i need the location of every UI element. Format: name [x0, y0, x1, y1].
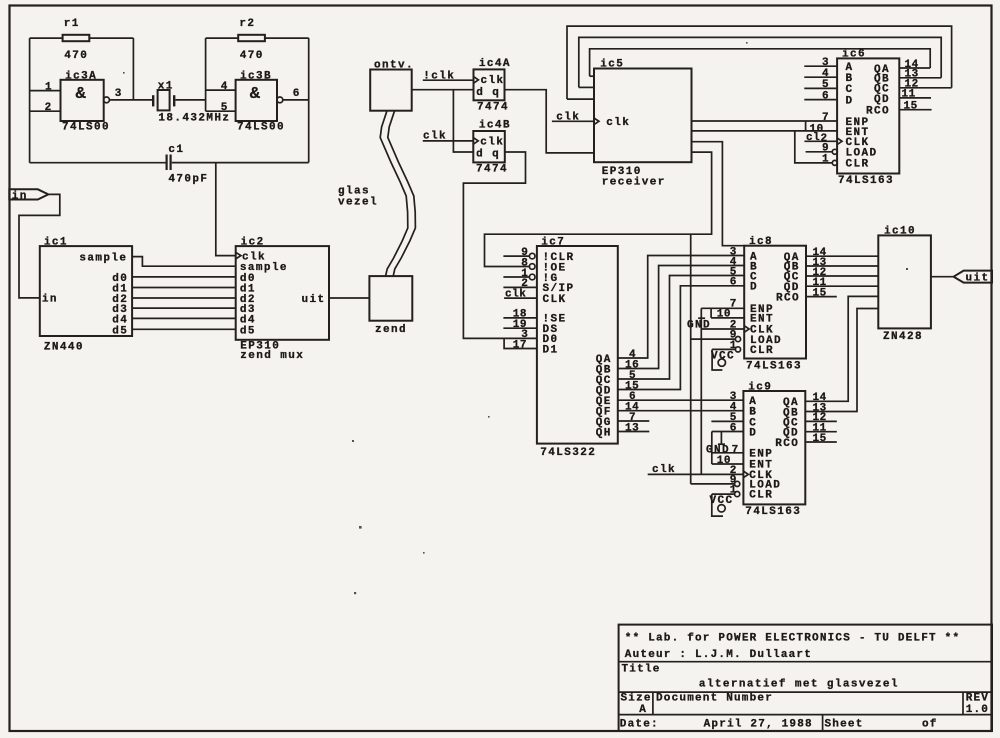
- svg-text:17: 17: [513, 339, 527, 351]
- wire loop stub C into ic5: [567, 98, 594, 100]
- svg-text:5: 5: [221, 102, 228, 114]
- svg-text:7474: 7474: [476, 163, 508, 175]
- wire ic7 QD to ic8 D: [618, 286, 744, 390]
- svg-text:CLR: CLR: [846, 159, 870, 171]
- wire ic7 QG stub: [618, 420, 650, 422]
- wire ic7 QB to ic8 B: [618, 266, 744, 369]
- wire ic5 to ic7 !OE: [485, 152, 712, 266]
- svg-text:in: in: [12, 191, 28, 203]
- wire ic8 QA to ic10: [806, 255, 878, 257]
- svg-text:C: C: [846, 84, 854, 96]
- ic6 CLR bubble: [832, 160, 837, 165]
- wire ic9 LOAD stub: [691, 483, 735, 485]
- wire osc right vertical: [308, 38, 310, 162]
- wire ic9 QD stub: [805, 431, 837, 433]
- svg-text:ic3A: ic3A: [65, 70, 97, 82]
- flip-flop ic4A 7474: [474, 69, 505, 100]
- wire ic9 D-ENP-ENT bracket: [711, 432, 713, 465]
- svg-text:ic10: ic10: [884, 226, 916, 238]
- capacitor C1: [167, 155, 171, 171]
- wire r1 left: [30, 37, 63, 39]
- wire !clk into ic4A: [423, 79, 474, 81]
- wire ic7 QE to ic9 A: [618, 399, 744, 401]
- svg-text:ic2: ic2: [241, 237, 265, 249]
- wire ic6 CLK: [804, 140, 837, 142]
- DAC ic10 ZN428: [878, 235, 931, 328]
- wire ic9 ENP: [712, 452, 744, 454]
- svg-text:2: 2: [45, 102, 52, 114]
- flip-flop ic4B 7474: [473, 131, 505, 162]
- svg-text:15: 15: [813, 433, 827, 445]
- wire ic8 CLK: [701, 328, 744, 330]
- resistor R1: [63, 35, 90, 41]
- wire ic3A output to r1 vertical: [132, 38, 134, 100]
- wire ic8 ENP-ENT bracket: [710, 308, 712, 318]
- svg-text:ic1: ic1: [44, 237, 68, 249]
- wire osc left vertical: [29, 38, 31, 163]
- wire clk to ic9 CLK: [648, 473, 744, 475]
- mux ic2 EP310: [236, 246, 329, 340]
- svg-text:74LS00: 74LS00: [62, 121, 110, 133]
- svg-text:6: 6: [730, 422, 737, 434]
- fiber receiver box ontv.: [370, 70, 412, 111]
- wire ic6 QB stub: [899, 77, 941, 79]
- svg-text:c1: c1: [168, 144, 184, 156]
- wire ic7 !G stub: [503, 276, 529, 278]
- ic3A output bubble: [104, 97, 110, 103]
- svg-text:470: 470: [64, 50, 88, 62]
- svg-text:Size: Size: [621, 692, 652, 704]
- svg-text:QH: QH: [596, 427, 612, 439]
- resistor R2: [238, 35, 265, 41]
- svg-text:ENP: ENP: [749, 448, 773, 460]
- wire d2: [132, 297, 236, 299]
- svg-text:74LS163: 74LS163: [745, 506, 801, 518]
- shift register ic7 74LS322: [537, 246, 618, 444]
- power symbol VCC (ic9): [710, 494, 734, 516]
- svg-text:d: d: [476, 87, 484, 99]
- wire ic8 QB to ic10: [806, 265, 878, 267]
- svg-text:Title: Title: [622, 664, 661, 676]
- wire ic8 LOAD stub: [691, 338, 736, 340]
- wire d0: [132, 276, 236, 278]
- wire c1 junction down to ic2 clk: [216, 163, 236, 256]
- ground symbol GND (ic9): [706, 432, 730, 457]
- svg-text:d: d: [476, 148, 484, 160]
- wire crystal to ic3B inputs: [175, 99, 205, 101]
- svg-text:ic4A: ic4A: [479, 58, 511, 70]
- svg-text:receiver: receiver: [602, 176, 666, 188]
- nand gate ic3A: [61, 80, 104, 121]
- svg-text:r1: r1: [64, 18, 80, 30]
- svg-text:470pF: 470pF: [168, 173, 208, 185]
- wire d4: [132, 317, 236, 319]
- counter ic8 74LS163: [744, 246, 806, 359]
- svg-text:74LS322: 74LS322: [540, 447, 596, 459]
- wire ic7 QA to ic8 A: [618, 256, 744, 359]
- wire c1 right: [172, 162, 309, 164]
- wire feedback loop middle QB to ic5: [579, 37, 941, 87]
- svg-text:13: 13: [625, 422, 639, 434]
- receiver ic5 EP310: [594, 69, 692, 163]
- wire ic9 D stub: [712, 431, 744, 433]
- title block frame: [619, 625, 992, 731]
- svg-text:in: in: [42, 294, 58, 306]
- wire ic7 CLK: [504, 297, 537, 299]
- connector UIT: [954, 271, 992, 285]
- wire ic6 C stub: [804, 87, 837, 89]
- wire ic6 A stub: [804, 65, 837, 67]
- svg-text:4: 4: [221, 81, 228, 93]
- svg-text:q: q: [492, 87, 500, 99]
- wire ic7 QH stub: [618, 431, 650, 433]
- svg-text:zend mux: zend mux: [240, 350, 304, 362]
- wire ic6 QC stub: [899, 87, 951, 89]
- svg-text:ic8: ic8: [749, 236, 773, 248]
- ic3B output bubble: [277, 97, 283, 103]
- wire ic7 S/IP stub: [503, 286, 537, 288]
- wire clk into ic4B: [423, 140, 474, 142]
- pin 5 wire ic3B: [206, 110, 236, 112]
- wire ic9 C stub: [711, 420, 743, 422]
- svg-text:D: D: [749, 427, 757, 439]
- svg-text:sample: sample: [79, 253, 127, 265]
- svg-text:ic7: ic7: [541, 236, 565, 248]
- ic9 CLR bubble: [735, 492, 740, 497]
- wire clk into ic5: [552, 120, 594, 122]
- wire load net vertical ic5/ic7 to ic9 LOAD: [690, 234, 692, 484]
- wire ic2 uit to zend box: [329, 297, 369, 299]
- svg-text:1: 1: [45, 81, 52, 93]
- wire ic8 QD to ic10: [806, 285, 878, 287]
- svg-text:6: 6: [822, 90, 829, 102]
- wire ic5 to ic6 ENP: [692, 120, 838, 122]
- svg-text:ic4B: ic4B: [479, 120, 511, 132]
- wire d3: [132, 307, 236, 309]
- wire ic9 CLR stub: [712, 493, 735, 495]
- svg-text:CLR: CLR: [750, 345, 774, 357]
- svg-text:clk: clk: [606, 117, 630, 129]
- wire ic8 ENP: [701, 307, 744, 309]
- svg-text:zend: zend: [375, 324, 407, 336]
- wire ontv to ic4A d: [412, 89, 474, 91]
- svg-text:VCC: VCC: [711, 350, 735, 362]
- svg-text:5: 5: [822, 79, 829, 91]
- wire d1: [132, 287, 236, 289]
- svg-text:Document Number: Document Number: [656, 692, 773, 704]
- svg-text:Sheet: Sheet: [825, 719, 864, 731]
- wire ic7 !CLR stub: [503, 255, 529, 257]
- wire c1 left: [30, 162, 166, 164]
- svg-text:r2: r2: [239, 18, 255, 30]
- wire ic9 QA to ic10: [805, 296, 878, 401]
- svg-text:RCO: RCO: [866, 106, 890, 118]
- ground symbol GND (ic8): [687, 318, 711, 331]
- svg-text:74LS163: 74LS163: [746, 360, 802, 372]
- svg-text:RCO: RCO: [775, 438, 799, 450]
- svg-text:74LS163: 74LS163: [838, 175, 894, 187]
- wire ic7 D0-D1 bracket: [504, 338, 537, 348]
- wire r2 left: [206, 37, 239, 39]
- counter ic6 74LS163: [837, 58, 899, 173]
- counter ic9 74LS163: [743, 391, 805, 504]
- svg-text:4: 4: [822, 68, 829, 80]
- svg-text:7: 7: [732, 444, 739, 456]
- ic7 !CLR bubble: [529, 253, 535, 259]
- svg-text:D: D: [846, 95, 854, 107]
- wire ic4B q to ic7 D0: [463, 152, 537, 338]
- svg-text:7: 7: [822, 112, 829, 124]
- svg-text:vezel: vezel: [338, 196, 378, 208]
- wire ic8 ENT: [711, 317, 744, 319]
- glass fiber wavy line 2: [388, 111, 416, 276]
- svg-text:ontv.: ontv.: [374, 59, 414, 71]
- wire ic5 to ic8 corner: [692, 142, 745, 246]
- svg-text:q: q: [492, 148, 500, 160]
- wire sample ic1 to ic2: [132, 257, 236, 267]
- wire d5: [132, 328, 236, 330]
- svg-text:&: &: [250, 85, 261, 104]
- svg-text:18.432MHz: 18.432MHz: [158, 112, 230, 124]
- svg-text:d5: d5: [112, 325, 128, 337]
- wire ic6 B stub: [804, 76, 837, 78]
- wire ic6 ENP-ENT bracket: [805, 121, 807, 131]
- svg-text:x1: x1: [158, 81, 174, 93]
- wire ic3B output: [283, 99, 309, 101]
- svg-text:clk: clk: [480, 136, 504, 148]
- wire ic7 QC to ic8 C: [618, 276, 744, 380]
- wire ic7 !SE stub: [503, 317, 537, 319]
- svg-text:CLR: CLR: [749, 490, 773, 502]
- svg-text:ic3B: ic3B: [240, 70, 272, 82]
- svg-text:7474: 7474: [477, 102, 509, 114]
- pin 4 wire ic3B: [206, 89, 236, 91]
- ic9 LOAD bubble: [735, 481, 740, 486]
- wire loop stub A into ic5: [590, 75, 594, 77]
- svg-text:15: 15: [904, 101, 918, 113]
- ic7 !G bubble: [529, 274, 535, 280]
- connector IN: [9, 189, 48, 202]
- svg-text:D1: D1: [543, 344, 559, 356]
- svg-text:15: 15: [813, 287, 827, 299]
- svg-text:1: 1: [822, 154, 829, 166]
- svg-text:VCC: VCC: [710, 495, 734, 507]
- svg-text:A: A: [639, 704, 647, 716]
- ic8 LOAD bubble: [735, 337, 740, 342]
- svg-text:CLK: CLK: [543, 294, 567, 306]
- wire ic5 to ic6 ENT: [692, 130, 838, 132]
- wire ic6 QA stub: [899, 67, 930, 69]
- wire ic9 RCO stub: [805, 441, 837, 443]
- svg-text:RCO: RCO: [776, 293, 800, 305]
- svg-text:ic5: ic5: [600, 59, 624, 71]
- svg-text:470: 470: [240, 50, 264, 62]
- svg-text:d5: d5: [240, 325, 256, 337]
- wire branch down to ic4B d: [453, 90, 473, 152]
- scan specks: [123, 42, 908, 594]
- svg-text:uit: uit: [302, 294, 326, 306]
- svg-text:Auteur : L.J.M. Dullaart: Auteur : L.J.M. Dullaart: [625, 649, 812, 661]
- svg-text:1.0: 1.0: [966, 704, 989, 716]
- svg-text:QD: QD: [874, 94, 890, 106]
- svg-text:3: 3: [115, 88, 122, 100]
- wire ic3A output to crystal: [109, 99, 153, 101]
- ic7 !OE bubble: [529, 264, 535, 270]
- svg-text:ENT: ENT: [750, 314, 774, 326]
- wire in connector to ic1: [19, 194, 60, 298]
- ADC ic1 ZN440: [40, 246, 132, 337]
- power symbol VCC (ic8): [711, 349, 735, 370]
- svg-text:alternatief met glasvezel: alternatief met glasvezel: [699, 679, 899, 691]
- wire ic9 QC stub: [805, 420, 837, 422]
- wire loop stub B into ic5: [579, 86, 594, 88]
- ic6 LOAD bubble: [832, 149, 837, 154]
- glass fiber wavy line 1: [380, 111, 408, 276]
- svg-text:uit: uit: [966, 272, 990, 284]
- svg-text:** Lab. for POWER ELECTRONICS: ** Lab. for POWER ELECTRONICS - TU DELFT…: [625, 632, 960, 644]
- wire ic6 CLR stub and tie to ENT: [795, 131, 833, 163]
- wire r1 right: [89, 37, 133, 39]
- wire ic7 QF to ic9 B: [618, 410, 744, 412]
- crystal X1: [153, 90, 174, 110]
- svg-text:11: 11: [902, 89, 916, 101]
- pin 2 wire ic3A: [30, 110, 61, 112]
- wire ic10 to uit connector: [931, 276, 954, 278]
- svg-text:Date:: Date:: [620, 719, 659, 731]
- svg-text:ZN440: ZN440: [44, 341, 84, 353]
- svg-text:April 27, 1988: April 27, 1988: [704, 719, 813, 731]
- wire ic4A q to ic5: [505, 90, 595, 153]
- wire ic7 DS stub: [503, 327, 537, 329]
- wire ic8 QC to ic10: [806, 275, 878, 277]
- wire feedback loop inner QA to ic5: [590, 49, 931, 76]
- svg-text:6: 6: [293, 88, 300, 100]
- wire feedback loop outer QC to ic5: [567, 26, 952, 99]
- wire ic9 QB to ic10: [805, 309, 878, 412]
- wire ic3B input vertical: [205, 38, 207, 111]
- wire ic6 LOAD stub: [806, 151, 833, 153]
- wire ic9 ENT: [712, 463, 744, 465]
- svg-text:ic6: ic6: [842, 49, 866, 61]
- wire ic6 RCO stub: [899, 109, 931, 111]
- pin 1 wire ic3A: [30, 90, 61, 92]
- wire r2 right: [265, 37, 309, 39]
- svg-text:ZN428: ZN428: [883, 331, 923, 343]
- svg-text:D: D: [750, 282, 758, 294]
- ic8 CLR bubble: [735, 347, 740, 352]
- wire gnd net vertical to ic9 clk: [700, 308, 702, 474]
- svg-text:of: of: [922, 719, 938, 731]
- wire ic8 CLR stub: [712, 348, 735, 350]
- svg-text:&: &: [76, 85, 87, 104]
- svg-text:74LS00: 74LS00: [237, 121, 285, 133]
- wire ic8 RCO stub: [806, 296, 837, 298]
- svg-text:REV: REV: [966, 692, 989, 704]
- svg-text:ic9: ic9: [748, 381, 772, 393]
- nand gate ic3B: [236, 80, 277, 121]
- svg-text:clk: clk: [481, 75, 505, 87]
- wire ic6 D stub: [804, 99, 837, 101]
- svg-text:6: 6: [730, 277, 737, 289]
- wire ic6 QD stub: [899, 97, 931, 99]
- fiber transmitter box zend: [369, 276, 412, 321]
